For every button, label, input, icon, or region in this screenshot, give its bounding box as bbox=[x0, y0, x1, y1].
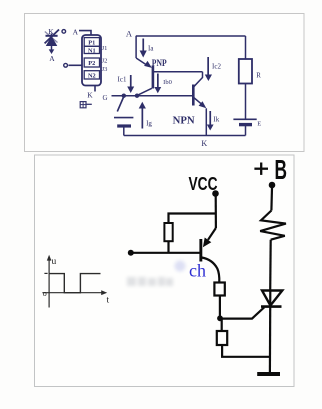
svg-text:Ig: Ig bbox=[146, 120, 152, 128]
resistor R3 body bbox=[217, 331, 227, 345]
gate junction dot bbox=[217, 315, 223, 321]
+B terminal dot bbox=[269, 182, 276, 189]
current arrow Ia bbox=[142, 39, 144, 52]
label +B plus bbox=[254, 163, 268, 175]
SCR vertical through lead bbox=[269, 291, 272, 373]
NPN emitter drop to rail bbox=[205, 108, 207, 135]
svg-text:VCC: VCC bbox=[189, 174, 218, 194]
svg-text:N2: N2 bbox=[88, 73, 96, 80]
PNP base wire to NPN collector bbox=[154, 71, 203, 73]
SCR gate wire bbox=[220, 307, 264, 318]
wire R3 bottom to ground rail bbox=[222, 345, 270, 357]
NPN collector diagonal wire bbox=[194, 72, 203, 87]
gate battery wire to bottom rail bbox=[123, 126, 125, 136]
svg-text:K: K bbox=[87, 90, 93, 99]
base wire with left terminal bbox=[131, 252, 201, 254]
stack layer P1 box bbox=[84, 38, 99, 47]
wire VCC node to R1 top bbox=[169, 214, 216, 224]
base left terminal dot bbox=[128, 250, 134, 256]
svg-text:Ia: Ia bbox=[148, 45, 154, 53]
current arrow Ib0 bbox=[157, 74, 159, 88]
junction dot G2 bbox=[135, 94, 139, 98]
svg-text:G: G bbox=[102, 94, 107, 102]
resistor RZ zigzag bbox=[260, 211, 286, 240]
svg-text:J2: J2 bbox=[102, 58, 108, 65]
svg-text:Ic2: Ic2 bbox=[212, 63, 221, 71]
VCC drop wire bbox=[215, 195, 217, 228]
stack gate lead wire bbox=[69, 64, 83, 66]
svg-text:J3: J3 bbox=[102, 66, 108, 73]
switch lever from G node bbox=[117, 97, 124, 112]
thyristor SCR symbol: lead from K label bbox=[51, 34, 53, 37]
PNP collector diagonal wire bbox=[137, 88, 152, 95]
waveform high level tick bbox=[44, 272, 47, 274]
waveform horizontal axis t bbox=[42, 292, 104, 294]
SCR T1 triangle bbox=[262, 291, 282, 306]
stack anode hook wire bbox=[79, 31, 91, 36]
thyristor SCR symbol: gate diagonal line bbox=[45, 30, 59, 44]
thyristor SCR symbol top-left: cathode bar bbox=[46, 35, 58, 37]
gate battery short plate bbox=[117, 124, 131, 127]
waveform vertical axis u bbox=[48, 257, 50, 308]
svg-text:P1: P1 bbox=[88, 40, 95, 47]
frame of lower figure bbox=[35, 155, 295, 387]
SCR cathode bar bbox=[261, 305, 282, 308]
transistor Q1 emitter arrowhead bbox=[203, 238, 211, 248]
svg-text:J1: J1 bbox=[102, 45, 108, 52]
waveform axis u arrowhead bbox=[47, 255, 52, 261]
svg-text:o: o bbox=[43, 289, 47, 298]
svg-text:Ik: Ik bbox=[213, 116, 219, 124]
stack gate terminal circle bbox=[64, 63, 68, 67]
svg-text:N1: N1 bbox=[88, 48, 96, 55]
resistor R1 body bbox=[164, 223, 172, 241]
svg-text:A: A bbox=[73, 27, 79, 36]
svg-text:A: A bbox=[49, 54, 55, 63]
bottom cathode rail wire bbox=[124, 135, 246, 137]
stack layer P2 box bbox=[84, 58, 99, 67]
ground bar bbox=[257, 372, 280, 376]
thyristor SCR symbol: triangle (apex up) bbox=[46, 36, 58, 46]
wire A drop to PNP emitter bbox=[135, 36, 137, 58]
svg-text:ch: ch bbox=[189, 261, 206, 281]
junction dot G1 bbox=[122, 94, 126, 98]
thyristor SCR symbol: second diagonal (blurred star) bbox=[45, 32, 58, 43]
current arrow Ik bbox=[209, 111, 211, 125]
wire resistor R to battery E bbox=[245, 84, 247, 120]
NPN base bar bbox=[192, 85, 195, 106]
svg-text:K: K bbox=[201, 139, 207, 148]
transistor Q1 emitter diagonal bbox=[208, 228, 216, 240]
stack layer N2 box bbox=[84, 71, 99, 79]
svg-text:NPN: NPN bbox=[173, 115, 195, 127]
svg-text:Ib0: Ib0 bbox=[163, 79, 172, 86]
PNP base bar bbox=[152, 66, 155, 89]
current arrow Ic2 bbox=[207, 57, 209, 75]
stack cathode lead wire bbox=[94, 86, 96, 92]
stack anode terminal circle bbox=[62, 30, 66, 34]
battery E long plate bbox=[233, 118, 256, 120]
SCR anode wire bbox=[269, 240, 272, 291]
svg-text:K: K bbox=[48, 27, 54, 36]
NPN emitter diagonal wire bbox=[194, 98, 202, 105]
caption dash bbox=[87, 103, 92, 105]
resistor R2 body bbox=[214, 283, 224, 296]
wire battery E to bottom rail bbox=[245, 125, 247, 136]
waveform square wave bbox=[49, 274, 100, 293]
blue watermark smudge bbox=[175, 261, 186, 272]
wire R1 bottom to base line bbox=[167, 241, 169, 253]
wire R2 bottom to gate node bbox=[219, 296, 221, 318]
svg-text:R: R bbox=[256, 72, 261, 80]
svg-text:u: u bbox=[52, 257, 57, 267]
thyristor SCR symbol: anode lead with arrowhead bbox=[51, 46, 53, 50]
node A label lead / top rail wire bbox=[136, 35, 246, 37]
frame of upper figure bbox=[25, 14, 305, 152]
grey watermark smudge bbox=[127, 277, 173, 286]
svg-text:E: E bbox=[257, 121, 261, 128]
caption glyph (blurred CJK) bbox=[80, 102, 86, 108]
NPN emitter arrowhead bbox=[199, 101, 207, 108]
svg-text:PNP: PNP bbox=[152, 59, 167, 69]
svg-text:P2: P2 bbox=[88, 60, 95, 67]
svg-text:Ic1: Ic1 bbox=[118, 76, 127, 84]
stack outer rounded box bbox=[82, 35, 101, 86]
gate battery long plate bbox=[114, 117, 133, 119]
battery E short plate bbox=[239, 123, 252, 126]
transistor Q1 base bar bbox=[199, 239, 202, 262]
svg-text:B: B bbox=[275, 154, 288, 185]
gate line G wire bbox=[112, 95, 193, 97]
VCC terminal dot bbox=[212, 190, 219, 197]
PNP emitter arrowhead bbox=[144, 61, 152, 68]
waveform axis t arrowhead bbox=[101, 290, 107, 295]
transistor Q1 collector curve bbox=[202, 258, 220, 283]
stack layer N1 box bbox=[84, 46, 99, 53]
resistor R body bbox=[239, 59, 252, 84]
wire gate node to R3 bbox=[221, 319, 223, 331]
svg-text:A: A bbox=[126, 29, 133, 39]
+B drop wire bbox=[270, 188, 273, 211]
current arrow Ig (up) bbox=[142, 109, 144, 129]
current arrow Ic1 bbox=[130, 75, 132, 87]
PNP emitter diagonal wire bbox=[136, 58, 146, 65]
right branch down to resistor R bbox=[245, 36, 247, 59]
svg-text:t: t bbox=[107, 296, 110, 306]
